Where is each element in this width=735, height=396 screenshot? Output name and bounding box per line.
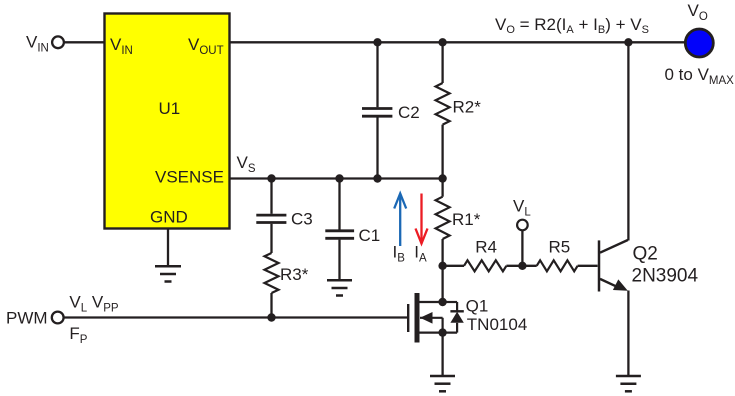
current arrow I_B (blue, up): [394, 194, 406, 247]
svg-text:R4: R4: [475, 237, 497, 256]
node Q1 drain junction: [438, 298, 446, 306]
resistor R1: [436, 197, 481, 239]
svg-text:2N3904: 2N3904: [632, 265, 699, 286]
svg-text:VS: VS: [237, 153, 256, 175]
body arrow line: [420, 317, 443, 319]
wire C2 lower lead: [376, 118, 378, 179]
wire R3 to PWM row: [270, 293, 272, 318]
node V_L terminal: [513, 197, 531, 231]
gate bar: [407, 304, 409, 332]
body arrow head: [420, 312, 433, 324]
svg-text:0 to VMAX: 0 to VMAX: [665, 65, 735, 87]
node V_O output terminal: [665, 1, 735, 87]
node PWM terminal: [6, 292, 119, 346]
svg-text:VSENSE: VSENSE: [155, 168, 224, 187]
svg-text:R2*: R2*: [453, 98, 482, 117]
wire R1 upper lead: [441, 179, 443, 197]
wire R1 to Q1 drain: [441, 266, 443, 302]
svg-text:IB: IB: [393, 243, 406, 265]
ground (under U1 GND pin): [155, 266, 181, 281]
node C3 top junction: [267, 174, 275, 182]
svg-text:VIN: VIN: [26, 33, 49, 55]
wire U1 GND pin: [167, 229, 169, 267]
body diode triangle + cathode bar: [450, 312, 463, 323]
svg-text:GND: GND: [150, 208, 188, 227]
transistor Q1 (TN0104 MOSFET): [408, 293, 457, 343]
svg-text:IA: IA: [414, 243, 427, 265]
op-amp U1 (regulator box): [105, 14, 230, 229]
svg-text:C1: C1: [359, 226, 381, 245]
svg-text:C2: C2: [398, 103, 420, 122]
wire R2 lower lead: [441, 125, 443, 179]
svg-text:R3*: R3*: [280, 265, 309, 284]
svg-text:C3: C3: [291, 210, 313, 229]
transistor Q2 (2N3904 NPN): [599, 240, 628, 292]
svg-text:U1: U1: [159, 99, 181, 118]
node V_L junction: [518, 262, 526, 270]
wire R4 left lead: [443, 265, 464, 267]
wire V_L drop: [521, 231, 523, 266]
wire Q2 emitter to ground: [627, 291, 629, 376]
svg-text:VL: VL: [513, 197, 531, 219]
node Q1 source junction: [438, 328, 446, 336]
wire C3 to R3: [270, 224, 272, 253]
resistor R2: [436, 83, 482, 125]
node C1 top junction: [335, 174, 343, 182]
svg-text:VO: VO: [688, 1, 708, 23]
wire R2 upper lead: [441, 42, 443, 83]
wire R4 to R5: [506, 265, 536, 267]
svg-text:VL VPP: VL VPP: [69, 292, 118, 314]
svg-text:Q2: Q2: [633, 244, 658, 265]
wire PWM row: [64, 316, 408, 318]
svg-text:PWM: PWM: [6, 308, 48, 327]
wire C1 upper lead: [338, 179, 340, 230]
ground (under Q1): [430, 376, 455, 391]
ground (under C1): [327, 280, 352, 295]
resistor R5: [537, 237, 578, 271]
node C2 bottom junction: [373, 174, 381, 182]
svg-text:VO = R2(IA + IB) + VS: VO = R2(IA + IB) + VS: [495, 15, 649, 36]
svg-text:Q1: Q1: [466, 297, 489, 316]
capacitor C1: [325, 226, 380, 245]
wire C1 to ground: [338, 240, 340, 280]
wire V_OUT to V_O top rail: [230, 41, 686, 43]
wire Q2 collector riser: [627, 42, 629, 240]
wire C2 upper lead: [376, 42, 378, 107]
node R1/R4 junction: [438, 262, 446, 270]
drain lead: [420, 301, 443, 303]
wire Q1 source to ground: [441, 333, 443, 376]
node R3/PWM junction: [267, 313, 275, 321]
resistor R3: [265, 253, 309, 293]
source lead: [420, 332, 458, 334]
ground (under Q2): [616, 376, 641, 391]
node R2/R1 junction: [438, 174, 446, 182]
node Q2 collector junction: [624, 38, 632, 46]
body diode branch: [443, 301, 458, 303]
svg-text:R5: R5: [549, 237, 571, 256]
node C2 top junction: [373, 38, 381, 46]
svg-text:FP: FP: [69, 324, 87, 346]
svg-text:TN0104: TN0104: [467, 315, 527, 334]
current arrow I_A (red, down): [416, 194, 428, 244]
wire VSENSE row: [230, 177, 443, 179]
node R2 top junction: [438, 38, 446, 46]
wire R5 to Q2 base: [578, 265, 598, 267]
svg-text:R1*: R1*: [452, 210, 481, 229]
wire C3 upper lead: [270, 179, 272, 214]
capacitor C2: [362, 103, 420, 122]
node V_IN terminal: [26, 33, 64, 55]
resistor R4: [464, 237, 506, 271]
wire V_IN terminal to U1: [64, 41, 105, 43]
capacitor C3: [256, 210, 312, 229]
channel bar: [415, 293, 420, 343]
wire R1 lower lead: [441, 239, 443, 266]
